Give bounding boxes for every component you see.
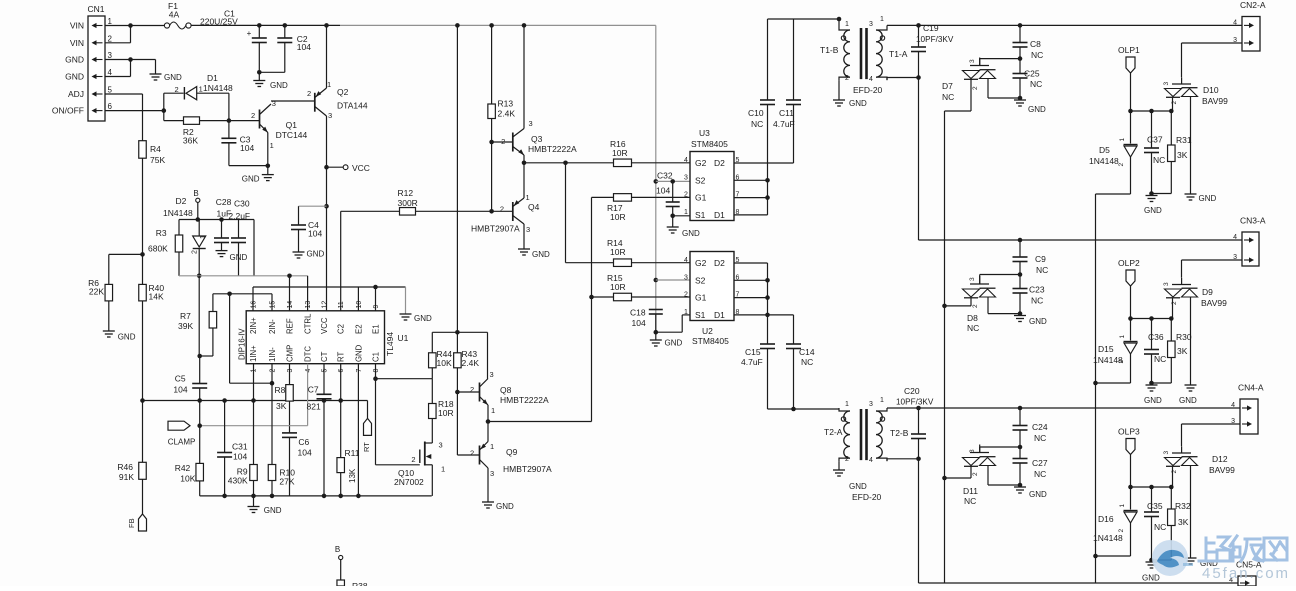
transistor-array U3 STM8405 body [690,152,734,221]
junction C37/R31 gnd [1149,191,1154,196]
wire Q1 collector to Q2 base [271,100,315,102]
junction R43 feed [455,23,460,28]
junction C20 [916,406,921,411]
svg-text:D10: D10 [1203,85,1219,95]
junction REF pin [287,274,292,279]
wire to R31 [1170,111,1172,145]
svg-text:C27: C27 [1032,458,1048,468]
capacitor C11 4.7uF [786,100,801,105]
svg-text:3: 3 [684,274,688,281]
svg-text:G2: G2 [695,158,707,168]
svg-text:C7: C7 [308,385,319,395]
wire C8 to C25 [1019,47,1021,74]
polarity dot T1-B [841,36,845,40]
wire C8 top leg [1019,25,1021,42]
wire D11 top to C24/C27 [980,446,1020,448]
transistor Q9 HMBT2907A PNP [479,446,481,465]
svg-text:NC: NC [1154,522,1166,532]
wire to R14 [566,262,614,264]
wire R10 to rail [271,481,273,496]
junction 1IN+/R9 [251,398,256,403]
svg-text:C25: C25 [1024,69,1040,79]
junction D15 [1128,316,1133,321]
junction C28 top [219,217,224,222]
CN3-A pin 4 arrow [1244,239,1250,241]
wire C24 top leg [1019,408,1021,426]
svg-text:BAV99: BAV99 [1202,96,1228,106]
wire T2-A pin2 to gnd [838,461,840,470]
wire totem1 output [524,162,614,164]
resistor R10 27K [268,465,276,481]
junction C7 [322,398,327,403]
wire R12 to driver node [416,210,492,212]
svg-text:3: 3 [287,369,294,373]
svg-text:2.4K: 2.4K [462,358,480,368]
wire U3 right pin 2 [734,197,768,199]
wire to T2-A [768,408,840,410]
svg-text:3K: 3K [276,401,287,411]
wire D5 to anode bus [1096,193,1131,195]
svg-text:GND: GND [65,55,84,65]
svg-text:1: 1 [684,209,688,216]
wire to C35 [1151,487,1153,512]
wire pin4 up to pin3 [130,60,132,77]
junction U2 bus [765,278,770,283]
svg-text:3: 3 [490,370,494,379]
svg-text:3: 3 [490,469,494,478]
svg-text:U1: U1 [398,333,409,343]
wire R11 to gnd rail [340,473,342,496]
svg-text:2: 2 [501,137,505,146]
wire T1-A top [886,25,888,27]
svg-text:104: 104 [298,448,312,458]
svg-text:C20: C20 [904,386,920,396]
svg-text:2: 2 [845,75,849,82]
svg-text:ON/OFF: ON/OFF [52,106,84,116]
svg-text:2: 2 [307,89,311,98]
junction U3 bus [765,178,770,183]
junction D8 left [942,304,947,309]
wire output rail 2 [919,239,1243,241]
svg-text:Q3: Q3 [531,134,543,144]
svg-text:NC: NC [1034,469,1046,479]
wire up to R17/R15 [591,197,593,421]
junction D7 right [1018,96,1023,101]
svg-text:1N4148: 1N4148 [203,83,233,93]
resistor R14 10R [614,259,632,267]
wire B to R38 [340,560,342,580]
wire Q4 collector down [523,224,525,249]
svg-text:3: 3 [439,441,443,450]
wire D1 to right leg [197,92,229,94]
svg-text:10R: 10R [610,282,626,292]
wire R44 top [431,332,433,353]
svg-text:1IN+: 1IN+ [249,345,258,362]
svg-text:104: 104 [240,143,254,153]
wire Q3 collector to rail [523,25,525,128]
svg-text:3: 3 [969,277,976,281]
svg-text:CN2-A: CN2-A [1240,0,1266,10]
capacitor C37 NC [1144,148,1159,153]
svg-text:10PF/3KV: 10PF/3KV [896,398,934,407]
wire REF to C5 [198,276,200,356]
diode D8 NC [963,289,996,297]
svg-text:GND: GND [65,72,84,82]
wire to R10 [271,383,273,464]
svg-text:6: 6 [108,102,113,111]
wire clamp diode bus [944,111,946,583]
wire to D5 [1130,111,1132,144]
wire to Q8 base [457,391,479,393]
svg-text:D1: D1 [714,210,725,220]
wire R9 to rail [253,481,255,496]
wire C30 top [238,220,240,239]
svg-text:Q4: Q4 [528,202,540,212]
svg-text:GND: GND [270,81,288,90]
svg-text:R7: R7 [180,311,191,321]
wire R40 top [142,254,144,284]
junction C37 [1149,109,1154,114]
wire U2 right pin 0 [734,262,768,264]
CN4-A pin 3 arrow [1242,423,1248,425]
svg-text:8: 8 [373,369,380,373]
svg-text:1: 1 [491,406,495,415]
junction R12/R13 [489,209,494,214]
junction Q2 emitter [324,23,329,28]
svg-text:2: 2 [972,304,979,308]
wire network top rail [179,219,254,221]
fuse F1 4A [164,23,169,28]
svg-text:R13: R13 [498,99,514,109]
ground D12 [1185,558,1197,564]
svg-text:STM8405: STM8405 [692,336,729,346]
wire D9 to connector [1181,260,1183,278]
capacitor C10 NC [760,100,775,105]
wire D12 left pin [1172,466,1174,487]
wire to D1 anode [164,92,184,94]
svg-text:75K: 75K [150,155,165,165]
junction D8 top [1018,272,1023,277]
svg-text:G1: G1 [695,193,707,203]
node B bottom terminal [339,555,343,559]
svg-text:GND: GND [1144,396,1162,405]
junction S2 U2 [654,278,659,283]
wire pin15 2IN- stub [271,294,273,311]
resistor R2 35K [184,117,200,125]
resistor R15 10R [614,293,632,301]
wire output rail 4 [919,582,1239,584]
wire D7 pin3 [979,59,981,66]
wire D7 right pin [987,79,989,99]
wire to Q8 collector [487,332,489,378]
wire gnd stub [253,496,255,507]
ground C23 [1014,316,1026,322]
wire to D15 [1130,319,1132,341]
svg-text:4A: 4A [169,10,180,20]
junction D5 [1128,109,1133,114]
wire DTC to CLAMP [200,425,308,427]
svg-text:CN1: CN1 [87,4,104,14]
diode D2 1N4148 [193,236,206,247]
wire C20 to rail4 [918,439,920,584]
wire R46 to FB [142,479,144,514]
ground T2 [833,470,845,476]
svg-text:2: 2 [1171,301,1178,305]
capacitor C32 104 [666,202,680,207]
svg-text:2.4K: 2.4K [498,109,516,119]
node FB flag [139,514,147,531]
wire U2 right pin 3 [734,314,768,316]
svg-text:3: 3 [969,449,976,453]
junction C31 [222,398,227,403]
svg-text:1: 1 [880,16,884,23]
wire C30 bottom [238,243,240,276]
node OLP3 flag [1126,439,1135,455]
svg-text:GND: GND [682,229,700,238]
capacitor C4 104 [291,225,306,230]
svg-text:1: 1 [684,309,688,316]
wire to Q4 base [492,210,513,212]
capacitor C36 NC [1144,350,1159,355]
wire output rail 1 [887,24,1242,26]
wire C37/R31 join [1152,193,1172,195]
svg-text:1: 1 [845,401,849,408]
junction U3 bus [765,195,770,200]
wire ADJ to R4 [142,94,144,141]
op-amp U1 TL494 body [246,311,384,364]
wire R31 bottom [1170,162,1172,194]
svg-text:C9: C9 [1035,254,1046,264]
junction R31 [1169,109,1174,114]
svg-text:14K: 14K [149,292,164,302]
wire OLP3 to bus [1130,455,1132,488]
svg-text:T2-B: T2-B [890,428,909,438]
svg-text:2: 2 [192,250,199,254]
svg-text:C24: C24 [1032,422,1048,432]
ground C25 [1014,100,1026,106]
wire C23 bottom [1019,293,1021,315]
junction C36 [1149,316,1154,321]
svg-text:U3: U3 [699,128,710,138]
svg-text:GND: GND [354,344,363,362]
wire B to network [197,202,199,219]
wire T2-B bottom [886,459,888,461]
wire gate to C1 pin [375,379,377,465]
wire to ground [405,287,407,314]
junction B node [196,217,201,222]
resistor R40 14K [139,284,147,301]
svg-text:R3: R3 [156,228,167,238]
wire network right leg [253,220,255,276]
junction T1-B pin1 [837,17,842,22]
svg-text:91K: 91K [119,472,134,482]
svg-text:821: 821 [307,402,321,412]
wire to R18 [431,379,433,404]
diode D5 bar [1124,144,1138,146]
resistor R13 2.4K [488,104,496,119]
wire C14 bottom leg [793,349,795,410]
ground Q1 [262,175,274,181]
wire C3 bottom [228,143,230,166]
wire T1-B pin1 [838,19,840,27]
svg-text:REF: REF [286,318,295,334]
svg-text:GND: GND [264,506,282,515]
wire totem2 output [488,421,592,423]
svg-text:CMP: CMP [286,345,295,362]
wire D1-R2 left leg [163,93,165,120]
resistor R31 3K [1168,145,1176,162]
transformer core [860,28,863,79]
svg-text:STM8405: STM8405 [691,139,728,149]
wire to R46 [142,401,144,463]
svg-text:GND: GND [1029,490,1047,499]
svg-text:NC: NC [1153,155,1165,165]
junction D16 [1128,485,1133,490]
wire D15 to anode bus [1096,382,1131,384]
wire wrap bottom [230,382,272,384]
wire to R30 [1170,319,1172,342]
wire C15 bottom leg [767,349,769,410]
svg-text:D2: D2 [714,158,725,168]
wire C1 pin to R44 [376,378,433,380]
svg-text:12: 12 [322,301,329,309]
junction R30 [1169,316,1174,321]
wire output rail 3 [887,407,1240,409]
svg-text:C35: C35 [1147,501,1163,511]
ground C37/R31 [1146,196,1158,202]
wire U2 right pin 2 [734,297,768,299]
ground C27 [1014,487,1026,493]
resistor R16 10R [614,159,632,167]
wire to R9 [253,401,255,465]
junction D11 right [1018,483,1023,488]
resistor R17 10R [614,194,632,202]
junction Q1 emitter gnd [266,164,271,169]
wire R6 to ground [108,301,110,331]
resistor R44 10K [429,353,437,368]
svg-text:GND: GND [1199,194,1217,203]
svg-text:VCC: VCC [352,163,370,173]
wire to ground [672,216,674,227]
capacitor C30 2.2uF [231,238,246,243]
wire R15 to G1 U2 [632,296,691,298]
capacitor C28 1uF [214,238,229,243]
wire to ground [655,332,657,340]
svg-text:R30: R30 [1176,332,1192,342]
wire to S1 U2 [656,331,682,333]
wire R8 to C6 [289,401,291,433]
svg-text:CLAMP: CLAMP [168,438,196,447]
svg-text:RT: RT [337,352,346,362]
junction C19 bottom [916,75,921,80]
wire U3 drain bus [767,163,769,215]
svg-text:2: 2 [175,85,179,94]
junction GND pin rail [356,494,361,499]
svg-text:D16: D16 [1098,514,1114,524]
junction C20 bottom [916,457,921,462]
svg-text:10: 10 [356,301,363,309]
svg-text:GND: GND [496,502,514,511]
svg-text:VIN: VIN [70,38,84,48]
ground C36/R30 [1146,385,1158,391]
svg-text:GND: GND [849,482,867,491]
svg-text:C1: C1 [372,352,381,362]
svg-text:D1: D1 [207,73,218,83]
wire Q1 emitter down [267,133,269,167]
wire CN1 pin3 to GND [105,59,156,61]
resistor R12 300R [400,208,416,216]
svg-text:CN3-A: CN3-A [1240,216,1266,226]
svg-text:S1: S1 [695,210,706,220]
svg-text:2: 2 [270,369,277,373]
wire VCC to R43 [456,25,458,352]
svg-text:HMBT2222A: HMBT2222A [500,395,549,405]
svg-text:B: B [193,189,198,198]
svg-text:GND: GND [414,314,432,323]
wire C4 tap [299,205,327,207]
svg-text:GND: GND [1029,317,1047,326]
svg-text:D5: D5 [1099,145,1110,155]
svg-text:D8: D8 [967,313,978,323]
wire D11 right to gnd node [988,484,1020,486]
junction feedback rail left [140,398,145,403]
capacitor C1 220U/25V [252,38,267,43]
wire R7 top [212,294,214,312]
junction Q3 base [489,140,494,145]
svg-text:C6: C6 [298,437,309,447]
diode D15 bar [1124,341,1138,343]
svg-text:C10: C10 [748,108,764,118]
svg-text:B: B [335,545,340,554]
svg-text:4.7uF: 4.7uF [741,357,763,367]
wire to T1-B [768,18,840,20]
wire C31 to rail [224,457,226,496]
wire C2 bottom [284,43,286,73]
svg-text:3: 3 [1163,282,1170,286]
CN2-A pin 3 arrow [1244,42,1250,44]
diode D1 1N4148 [183,87,185,100]
CN2-A pin 4 arrow [1244,24,1250,26]
svg-text:3: 3 [869,401,873,408]
svg-text:NC: NC [1036,265,1048,275]
svg-text:D2: D2 [176,196,187,206]
svg-text:2.2uF: 2.2uF [228,211,250,221]
transistor-array U2 STM8405 body [690,252,734,321]
svg-text:3: 3 [1233,254,1237,261]
svg-text:DTC: DTC [304,346,313,362]
svg-text:3K: 3K [1177,346,1188,356]
svg-text:C14: C14 [799,347,815,357]
svg-text:Q2: Q2 [337,87,349,97]
svg-text:3: 3 [969,59,976,63]
svg-text:2IN-: 2IN- [268,319,277,334]
capacitor C18 104 [649,310,663,315]
svg-text:C23: C23 [1029,285,1045,295]
svg-text:HMBT2907A: HMBT2907A [503,464,552,474]
svg-text:104: 104 [173,384,187,394]
svg-text:3: 3 [108,51,113,60]
node OLP1 flag [1126,57,1135,73]
svg-text:3: 3 [529,119,533,128]
svg-text:1N4148: 1N4148 [1089,156,1119,166]
wire C32 top leg [672,181,674,202]
ground C28 [216,251,228,257]
wire C1 top [258,25,260,38]
junction R15 [589,295,594,300]
svg-text:680K: 680K [148,244,168,254]
wire D15 bottom [1130,354,1132,383]
resistor R32 3K [1168,509,1176,526]
